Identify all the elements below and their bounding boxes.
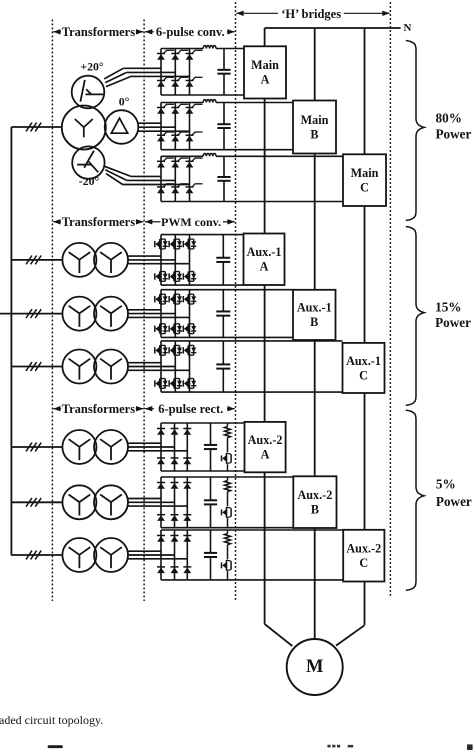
svg-text:Aux.-1: Aux.-1 [247,245,282,259]
svg-text:M: M [306,657,323,677]
svg-text:‘H’ bridges: ‘H’ bridges [281,7,341,21]
svg-text:aded circuit topology.: aded circuit topology. [0,713,103,727]
svg-text:A: A [261,447,270,461]
svg-text:B: B [311,502,319,516]
svg-text:Aux.-1: Aux.-1 [346,354,381,368]
svg-text:-20°: -20° [79,174,100,188]
svg-text:C: C [359,368,368,382]
svg-text:C: C [360,180,369,194]
svg-text:N: N [404,22,412,34]
svg-text:0°: 0° [119,95,130,109]
svg-text:+20°: +20° [80,60,104,74]
svg-text:Transformers: Transformers [62,25,135,39]
svg-text:B: B [310,127,318,141]
svg-text:Transformers: Transformers [62,215,135,229]
svg-text:Aux.-2: Aux.-2 [248,433,283,447]
svg-text:Power: Power [436,126,472,141]
svg-text:Aux.-2: Aux.-2 [297,488,332,502]
svg-text:PWM conv.: PWM conv. [161,215,221,229]
svg-text:A: A [261,73,270,87]
svg-text:Power: Power [435,315,471,330]
svg-text:A: A [260,260,269,274]
svg-text:5%: 5% [436,477,456,492]
svg-text:15%: 15% [435,299,461,314]
svg-text:Aux.-1: Aux.-1 [297,301,332,315]
svg-text:Main: Main [251,58,279,72]
svg-text:Main: Main [301,113,329,127]
svg-text:Transformers: Transformers [62,402,135,416]
svg-text:6-pulse conv.: 6-pulse conv. [156,25,225,39]
svg-text:Aux.-2: Aux.-2 [346,541,381,555]
svg-text:Main: Main [351,166,379,180]
svg-text:B: B [310,315,318,329]
svg-text:C: C [359,556,368,570]
svg-text:Power: Power [436,494,472,509]
svg-text:6-pulse rect.: 6-pulse rect. [158,402,223,416]
svg-text:80%: 80% [436,110,462,125]
